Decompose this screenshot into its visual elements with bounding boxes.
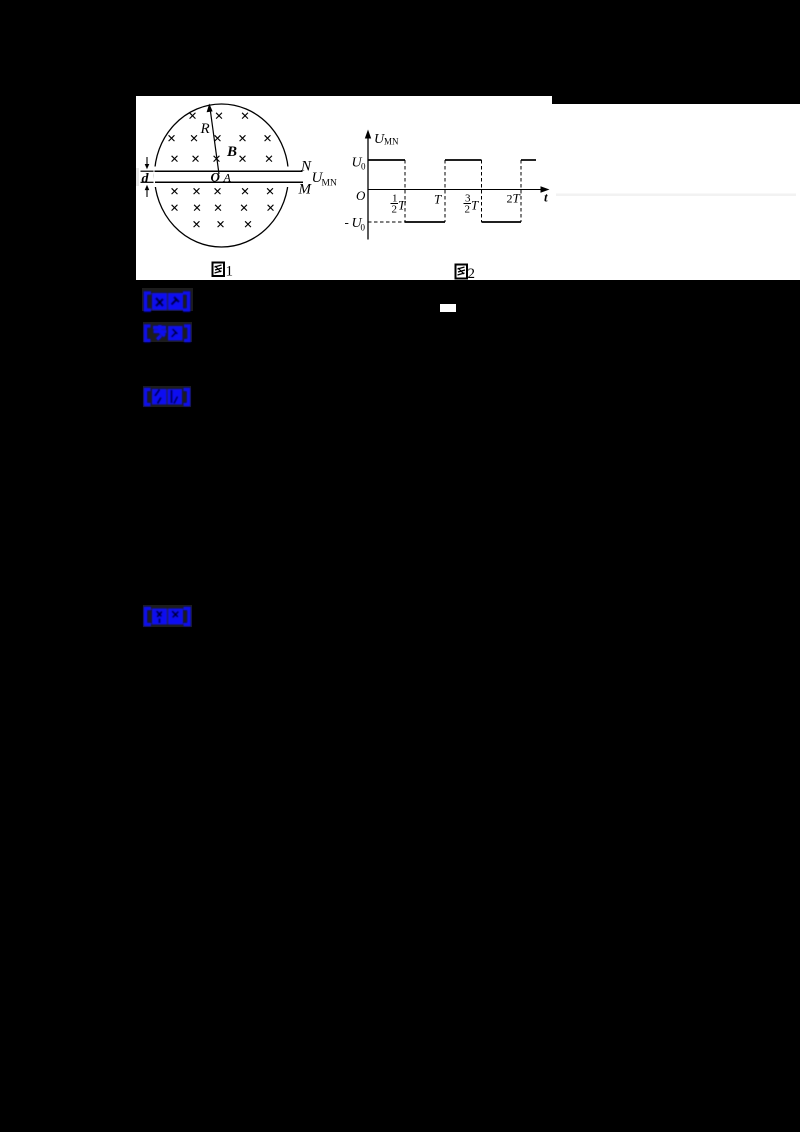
square wave low segment 2: [482, 221, 522, 223]
blue tag chips: [0, 0, 800, 700]
wave dashed vertical at T: [444, 160, 446, 222]
d dimension down arrow: [146, 157, 148, 165]
field crosses row 1: [167, 108, 275, 234]
faint gray smudge left of panel gap: [136, 168, 139, 186]
tag 专题 bracket left: [146, 326, 151, 341]
d dimension up arrow: [146, 189, 148, 197]
tag 解答 bracket right: [184, 609, 190, 625]
tag 专题 chip: [143, 322, 192, 342]
tag 考点 bracket right: [183, 293, 189, 310]
tag 专题 glyph1: [153, 325, 167, 340]
radius arrow R: [210, 108, 219, 174]
d dimension tick bottom: [141, 181, 154, 183]
tag 分析 glyph2: [168, 389, 183, 405]
tag 考点 chip: [142, 288, 193, 311]
capacitor gap white strip: [154, 167, 302, 188]
tag 分析 glyph1: [152, 389, 167, 405]
dashed -U0 level from axis: [368, 221, 405, 223]
caption 图1 box glyph: [213, 263, 225, 277]
tag 考点 glyph2: [168, 293, 183, 310]
square wave high segment 2: [445, 159, 482, 161]
wave dashed vertical at 3T/2: [481, 160, 483, 222]
field region circle: [155, 104, 289, 247]
square wave low segment 1: [405, 221, 445, 223]
tag 解答 glyph2: [168, 609, 183, 625]
tag 考点 glyph1: [152, 293, 167, 310]
faint artifact line right of axis: [556, 194, 796, 197]
tag 专题 bracket right: [184, 326, 189, 341]
tag 解答 glyph1: [152, 609, 167, 625]
tag 分析 bracket left: [146, 390, 151, 405]
tag 解答 chip: [143, 605, 192, 627]
plate N line: [155, 170, 303, 172]
square wave high segment 3: [521, 159, 536, 161]
answer blank white box: [440, 304, 456, 312]
tag 分析 chip: [143, 386, 191, 407]
wave dashed vertical at T/2: [404, 160, 406, 222]
wave dashed vertical at 2T: [520, 160, 522, 222]
square wave high segment 1: [368, 159, 405, 161]
caption 图2 box glyph: [456, 265, 468, 279]
white figure panel: [136, 96, 800, 280]
y axis: [367, 133, 369, 240]
tag 分析 bracket right: [184, 390, 189, 405]
x axis: [368, 189, 545, 191]
d dimension tick top: [141, 170, 154, 172]
tag 考点 bracket left: [146, 293, 152, 310]
tag 解答 bracket left: [146, 609, 152, 625]
black notch over top-right of panel: [552, 96, 800, 104]
plate M line: [155, 181, 303, 183]
tag 专题 glyph2: [168, 326, 183, 341]
